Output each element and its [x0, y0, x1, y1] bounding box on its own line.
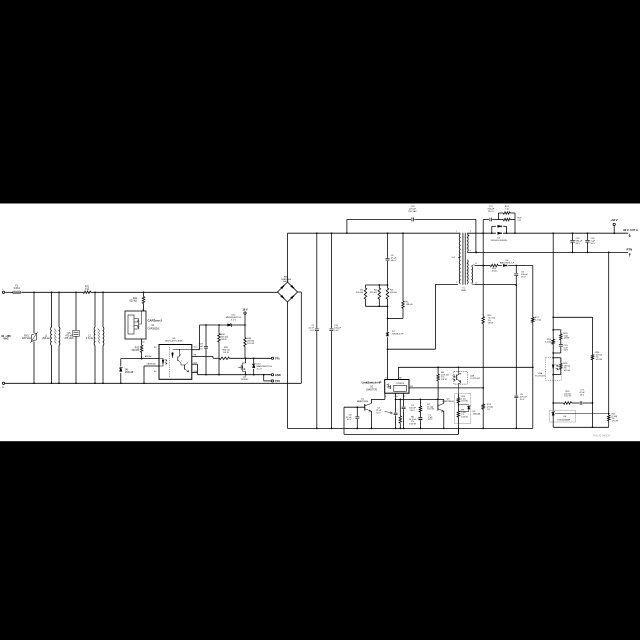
- svg-text:RM8: RM8: [461, 290, 466, 292]
- output diode D4a: [498, 232, 501, 234]
- wire - under-route to Q1 base: [344, 407, 458, 434]
- label 90-265 VAC: [1, 334, 11, 341]
- resistor R18 capacitor C14 branch: [553, 330, 570, 353]
- svg-text:1.2 kΩ: 1.2 kΩ: [535, 319, 542, 321]
- svg-text:VAC: VAC: [3, 337, 8, 341]
- test point GND: [271, 373, 280, 377]
- svg-text:25 V: 25 V: [521, 276, 526, 278]
- svg-text:4: 4: [470, 231, 471, 233]
- label R22: [505, 206, 510, 211]
- capacitor C2: [308, 233, 318, 429]
- resistor R33: [244, 325, 255, 358]
- svg-text:LMV431AIMF: LMV431AIMF: [558, 418, 571, 421]
- wire - sense top link: [553, 317, 592, 427]
- svg-text:CATHODE: CATHODE: [147, 363, 157, 366]
- capacitor C15: [570, 233, 583, 252]
- svg-text:3.1 V: 3.1 V: [257, 369, 263, 371]
- common-mode choke L2: [86, 291, 104, 384]
- capacitor C11: [330, 233, 342, 429]
- svg-text:+33 V: +33 V: [610, 218, 617, 222]
- wire - q network: [396, 399, 444, 401]
- svg-text:2N7002: 2N7002: [241, 379, 249, 381]
- drawing number: [593, 435, 611, 438]
- common-mode choke L1: [42, 291, 60, 384]
- capacitor C19: [198, 325, 208, 376]
- MOSFET Q3: [238, 358, 249, 381]
- transistor Q1: [344, 399, 371, 429]
- resistor R17: [532, 266, 542, 429]
- wire - drain node: [387, 284, 458, 379]
- svg-text:25 V: 25 V: [580, 395, 585, 397]
- svg-text:50 V: 50 V: [564, 350, 569, 352]
- bottom AC rail: [5, 382, 302, 384]
- resistor R8: [437, 367, 449, 399]
- svg-text:D2: D2: [142, 342, 145, 344]
- label R23: [518, 218, 523, 223]
- svg-text:1/10 W: 1/10 W: [461, 401, 468, 403]
- resistor R15: [482, 266, 496, 388]
- label 33V 0.37A: [623, 228, 638, 237]
- svg-text:33 V, 0.37 A: 33 V, 0.37 A: [623, 228, 638, 232]
- zener D14: [252, 358, 272, 374]
- svg-text:620 kΩ: 620 kΩ: [370, 292, 377, 294]
- svg-text:50 V: 50 V: [376, 412, 381, 414]
- X capacitor C5: [64, 291, 79, 384]
- resistor R6: [399, 399, 417, 428]
- svg-text:FL2: FL2: [452, 257, 455, 259]
- svg-text:620 kΩ: 620 kΩ: [390, 292, 397, 294]
- svg-text:BAV21WS-7-F: BAV21WS-7-F: [500, 261, 515, 264]
- svg-text:1/16 W: 1/16 W: [612, 421, 619, 423]
- wire - bridge bottom to primary return: [287, 302, 289, 428]
- svg-text:TP1: TP1: [275, 356, 280, 360]
- svg-text:50 V: 50 V: [428, 419, 433, 421]
- svg-text:LinkSwitch-HP: LinkSwitch-HP: [362, 380, 382, 384]
- wire - BP riser: [398, 366, 532, 379]
- bias wire with R14 and D2: [475, 260, 533, 273]
- svg-text:35 V: 35 V: [576, 243, 581, 245]
- wire - FB: [409, 386, 483, 388]
- svg-text:50 V: 50 V: [347, 419, 352, 421]
- svg-text:1%: 1%: [487, 409, 490, 411]
- wire - bp cap riser C4: [402, 393, 417, 428]
- svg-text:320 VAC: 320 VAC: [22, 337, 31, 340]
- svg-text:290 μH: 290 μH: [42, 338, 50, 340]
- secondary top rail: [467, 232, 628, 234]
- svg-text:50 V: 50 V: [520, 399, 525, 401]
- svg-text:TCLT1007: TCLT1007: [470, 378, 481, 380]
- svg-text:1: 1: [456, 231, 457, 233]
- output diode D4b parallel: [492, 225, 507, 233]
- svg-text:600 V: 600 V: [283, 281, 289, 283]
- label C17: [487, 206, 494, 213]
- svg-text:5 Ω: 5 Ω: [85, 289, 89, 291]
- diode D6: [119, 359, 134, 385]
- resistor R2: [370, 285, 381, 306]
- wire - primary bias gnd: [198, 374, 272, 376]
- label C20: [408, 206, 417, 213]
- wire - output sense from 33V rail: [552, 233, 554, 358]
- svg-text:V30100C-E3/4W: V30100C-E3/4W: [490, 240, 507, 242]
- svg-text:1/10 W: 1/10 W: [564, 396, 571, 398]
- svg-text:620 kΩ: 620 kΩ: [132, 350, 140, 352]
- 19V supply wire with D15: [200, 314, 246, 326]
- clamp resistors bottom wire: [366, 305, 389, 307]
- capacitor C8: [346, 407, 359, 428]
- svg-text:GS1M-CTP: GS1M-CTP: [392, 334, 404, 336]
- svg-text:768 kΩ: 768 kΩ: [406, 304, 413, 306]
- svg-text:1N4148: 1N4148: [125, 372, 134, 374]
- svg-text:400 V: 400 V: [391, 260, 397, 262]
- resistor R3: [386, 285, 397, 306]
- terminal 19V: [242, 308, 248, 326]
- svg-text:25 V: 25 V: [198, 348, 203, 350]
- svg-text:50 V: 50 V: [410, 410, 415, 412]
- resistor R30: [218, 325, 228, 375]
- capacitor C16: [585, 233, 595, 252]
- DC bus rail: [288, 232, 461, 234]
- transistor Q2: [438, 399, 455, 429]
- svg-text:1/10 W: 1/10 W: [247, 343, 255, 345]
- bias return wire: [475, 283, 517, 285]
- diode D5: [458, 404, 481, 415]
- svg-text:11: 11: [475, 263, 477, 265]
- RTN rail: [467, 252, 628, 254]
- resistor R13: [132, 339, 143, 359]
- capacitor C9: [514, 394, 527, 401]
- svg-text:CAPZero-2: CAPZero-2: [148, 319, 163, 323]
- resistor R1: [356, 285, 367, 306]
- resistor R25: [607, 252, 618, 427]
- resistors R10 R9 in box: [455, 394, 471, 435]
- wire - neutral to bridge right vertex: [298, 292, 302, 383]
- svg-text:TP3: TP3: [275, 379, 280, 383]
- svg-text:1/8 W: 1/8 W: [488, 322, 495, 324]
- svg-text:GND: GND: [275, 373, 281, 377]
- optocoupler U5 pin wires: [192, 325, 213, 375]
- clamp resistors top wire: [366, 284, 389, 286]
- label D4: [490, 238, 507, 243]
- wire - R23b C17b: [553, 390, 593, 405]
- label CAPZero-2 U1: [148, 319, 163, 331]
- varistor RV1: [22, 291, 38, 384]
- primary ground rail: [288, 428, 533, 430]
- svg-text:1/10 W: 1/10 W: [596, 359, 603, 361]
- bridge rectifier BR1: [278, 277, 298, 302]
- fuse F1: [5, 285, 21, 293]
- wire - PG pin riser and C3: [376, 393, 398, 428]
- svg-text:1N4148: 1N4148: [473, 413, 481, 415]
- capacitor C8b bias: [514, 266, 528, 287]
- svg-text:1/16 W: 1/16 W: [409, 424, 417, 426]
- optocoupler U2A LED: [535, 357, 561, 380]
- svg-text:1.0 mH: 1.0 mH: [86, 338, 94, 340]
- svg-text:LNK6777E: LNK6777E: [366, 390, 378, 392]
- svg-text:6: 6: [470, 250, 471, 252]
- terminal L (AC line input): [2, 289, 4, 294]
- optocoupler U5: [154, 338, 192, 379]
- svg-text:620 kΩ: 620 kΩ: [356, 292, 363, 294]
- resistor R19 bypass: [553, 358, 570, 375]
- resistor R5: [387, 233, 413, 319]
- svg-text:275 VAC: 275 VAC: [64, 337, 73, 340]
- wire - source pin to Q1: [371, 393, 385, 403]
- svg-text:5.1 V: 5.1 V: [231, 319, 237, 321]
- wire - top AC rail RT1 to bridge: [91, 291, 278, 293]
- svg-text:620 kΩ: 620 kΩ: [130, 300, 138, 302]
- svg-text:1/8 W: 1/8 W: [441, 379, 448, 381]
- svg-text:PI-6142-040516: PI-6142-040516: [593, 435, 611, 438]
- wire - bias node down x516: [515, 285, 517, 428]
- resistor R7 and capacitor C1: [418, 399, 435, 428]
- wire - opto anode: [121, 355, 159, 359]
- svg-text:1 kV: 1 kV: [310, 330, 315, 332]
- svg-text:ACPL-4731-300E: ACPL-4731-300E: [165, 340, 183, 343]
- capacitor C20 wire: [347, 217, 477, 253]
- svg-text:D1: D1: [142, 309, 145, 311]
- wire - opto cathode down: [552, 375, 554, 411]
- resistor R21: [545, 339, 555, 344]
- schematic white sheet: [0, 204, 640, 442]
- wire TP1 with resistor R31: [213, 347, 271, 360]
- svg-text:1/4 W: 1/4 W: [223, 352, 230, 354]
- optocoupler U2B: [453, 367, 481, 393]
- wire - rail to bias link x483: [482, 233, 484, 265]
- resistor R26: [591, 352, 602, 361]
- svg-text:1/10 W: 1/10 W: [564, 370, 571, 372]
- svg-text:50 V: 50 V: [591, 243, 596, 245]
- svg-text:1/8 W: 1/8 W: [564, 338, 571, 340]
- svg-text:2 Ω: 2 Ω: [505, 208, 509, 210]
- svg-text:1/10 W: 1/10 W: [427, 409, 435, 411]
- label RTN: [627, 247, 633, 256]
- capacitor C6: [386, 233, 398, 285]
- svg-text:19 V: 19 V: [242, 308, 248, 312]
- label LinkSwitch-HP U3: [362, 380, 382, 391]
- terminal N (AC neutral input): [2, 382, 5, 389]
- svg-text:1 kV: 1 kV: [334, 330, 339, 332]
- resistor R24: [482, 387, 493, 428]
- resistor R11: [130, 291, 145, 311]
- test point TP3: [264, 375, 281, 383]
- svg-text:TCLT1007: TCLT1007: [535, 376, 546, 378]
- diode D1: [386, 306, 404, 349]
- svg-text:MMBT3904: MMBT3904: [357, 401, 369, 403]
- svg-text:ANODE: ANODE: [145, 355, 152, 358]
- svg-text:250 VAC: 250 VAC: [408, 210, 417, 213]
- CAPZero IC U1: [125, 309, 146, 343]
- svg-text:2 Ω: 2 Ω: [518, 220, 522, 222]
- svg-text:CAP200DG: CAP200DG: [148, 327, 160, 330]
- shunt regulator U4: [550, 410, 610, 427]
- thermistor RT1: [83, 287, 91, 294]
- svg-text:CONTROL: CONTROL: [396, 383, 405, 385]
- svg-text:(0 Ω): (0 Ω): [492, 270, 497, 272]
- svg-text:3.15 A: 3.15 A: [13, 287, 20, 290]
- LinkSwitch-HP U3: [385, 377, 409, 398]
- wire - opto cathode: [143, 363, 159, 385]
- svg-text:RTN: RTN: [627, 247, 633, 251]
- secondary feedback gnd wire: [553, 426, 609, 428]
- wire - top AC rail to RT1: [22, 291, 84, 293]
- svg-text:1/16 W: 1/16 W: [461, 417, 468, 419]
- svg-text:MMBT3904: MMBT3904: [442, 401, 454, 403]
- svg-text:1/8 W: 1/8 W: [221, 339, 228, 341]
- terminal +33V: [610, 218, 617, 233]
- svg-text:250 V: 250 V: [488, 211, 494, 213]
- test point TP1: [271, 356, 280, 360]
- optocoupler U5 internals: [159, 347, 192, 377]
- snubber C17 R22 R23: [483, 212, 515, 233]
- transformer T1: [452, 231, 477, 293]
- svg-text:3: 3: [456, 282, 457, 284]
- wire - bridge top to DC bus: [287, 233, 289, 282]
- svg-text:2.4 kΩ: 2.4 kΩ: [545, 341, 552, 343]
- svg-text:U2A: U2A: [538, 372, 543, 375]
